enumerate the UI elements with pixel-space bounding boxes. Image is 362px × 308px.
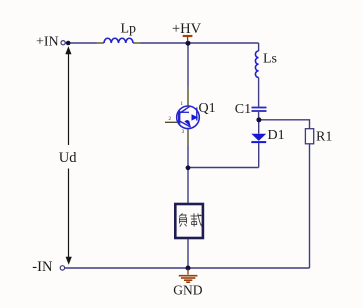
svg-text:Lp: Lp [121, 22, 137, 37]
svg-text:GND: GND [173, 283, 202, 298]
svg-text:D1: D1 [268, 128, 285, 143]
svg-text:Ls: Ls [263, 52, 277, 67]
svg-text:Q1: Q1 [199, 101, 216, 116]
svg-text:+HV: +HV [172, 21, 202, 37]
svg-text:+IN: +IN [36, 35, 59, 50]
svg-text:C1: C1 [235, 102, 251, 117]
svg-text:-IN: -IN [32, 259, 53, 275]
svg-text:R1: R1 [316, 130, 332, 145]
svg-text:Ud: Ud [59, 150, 77, 166]
